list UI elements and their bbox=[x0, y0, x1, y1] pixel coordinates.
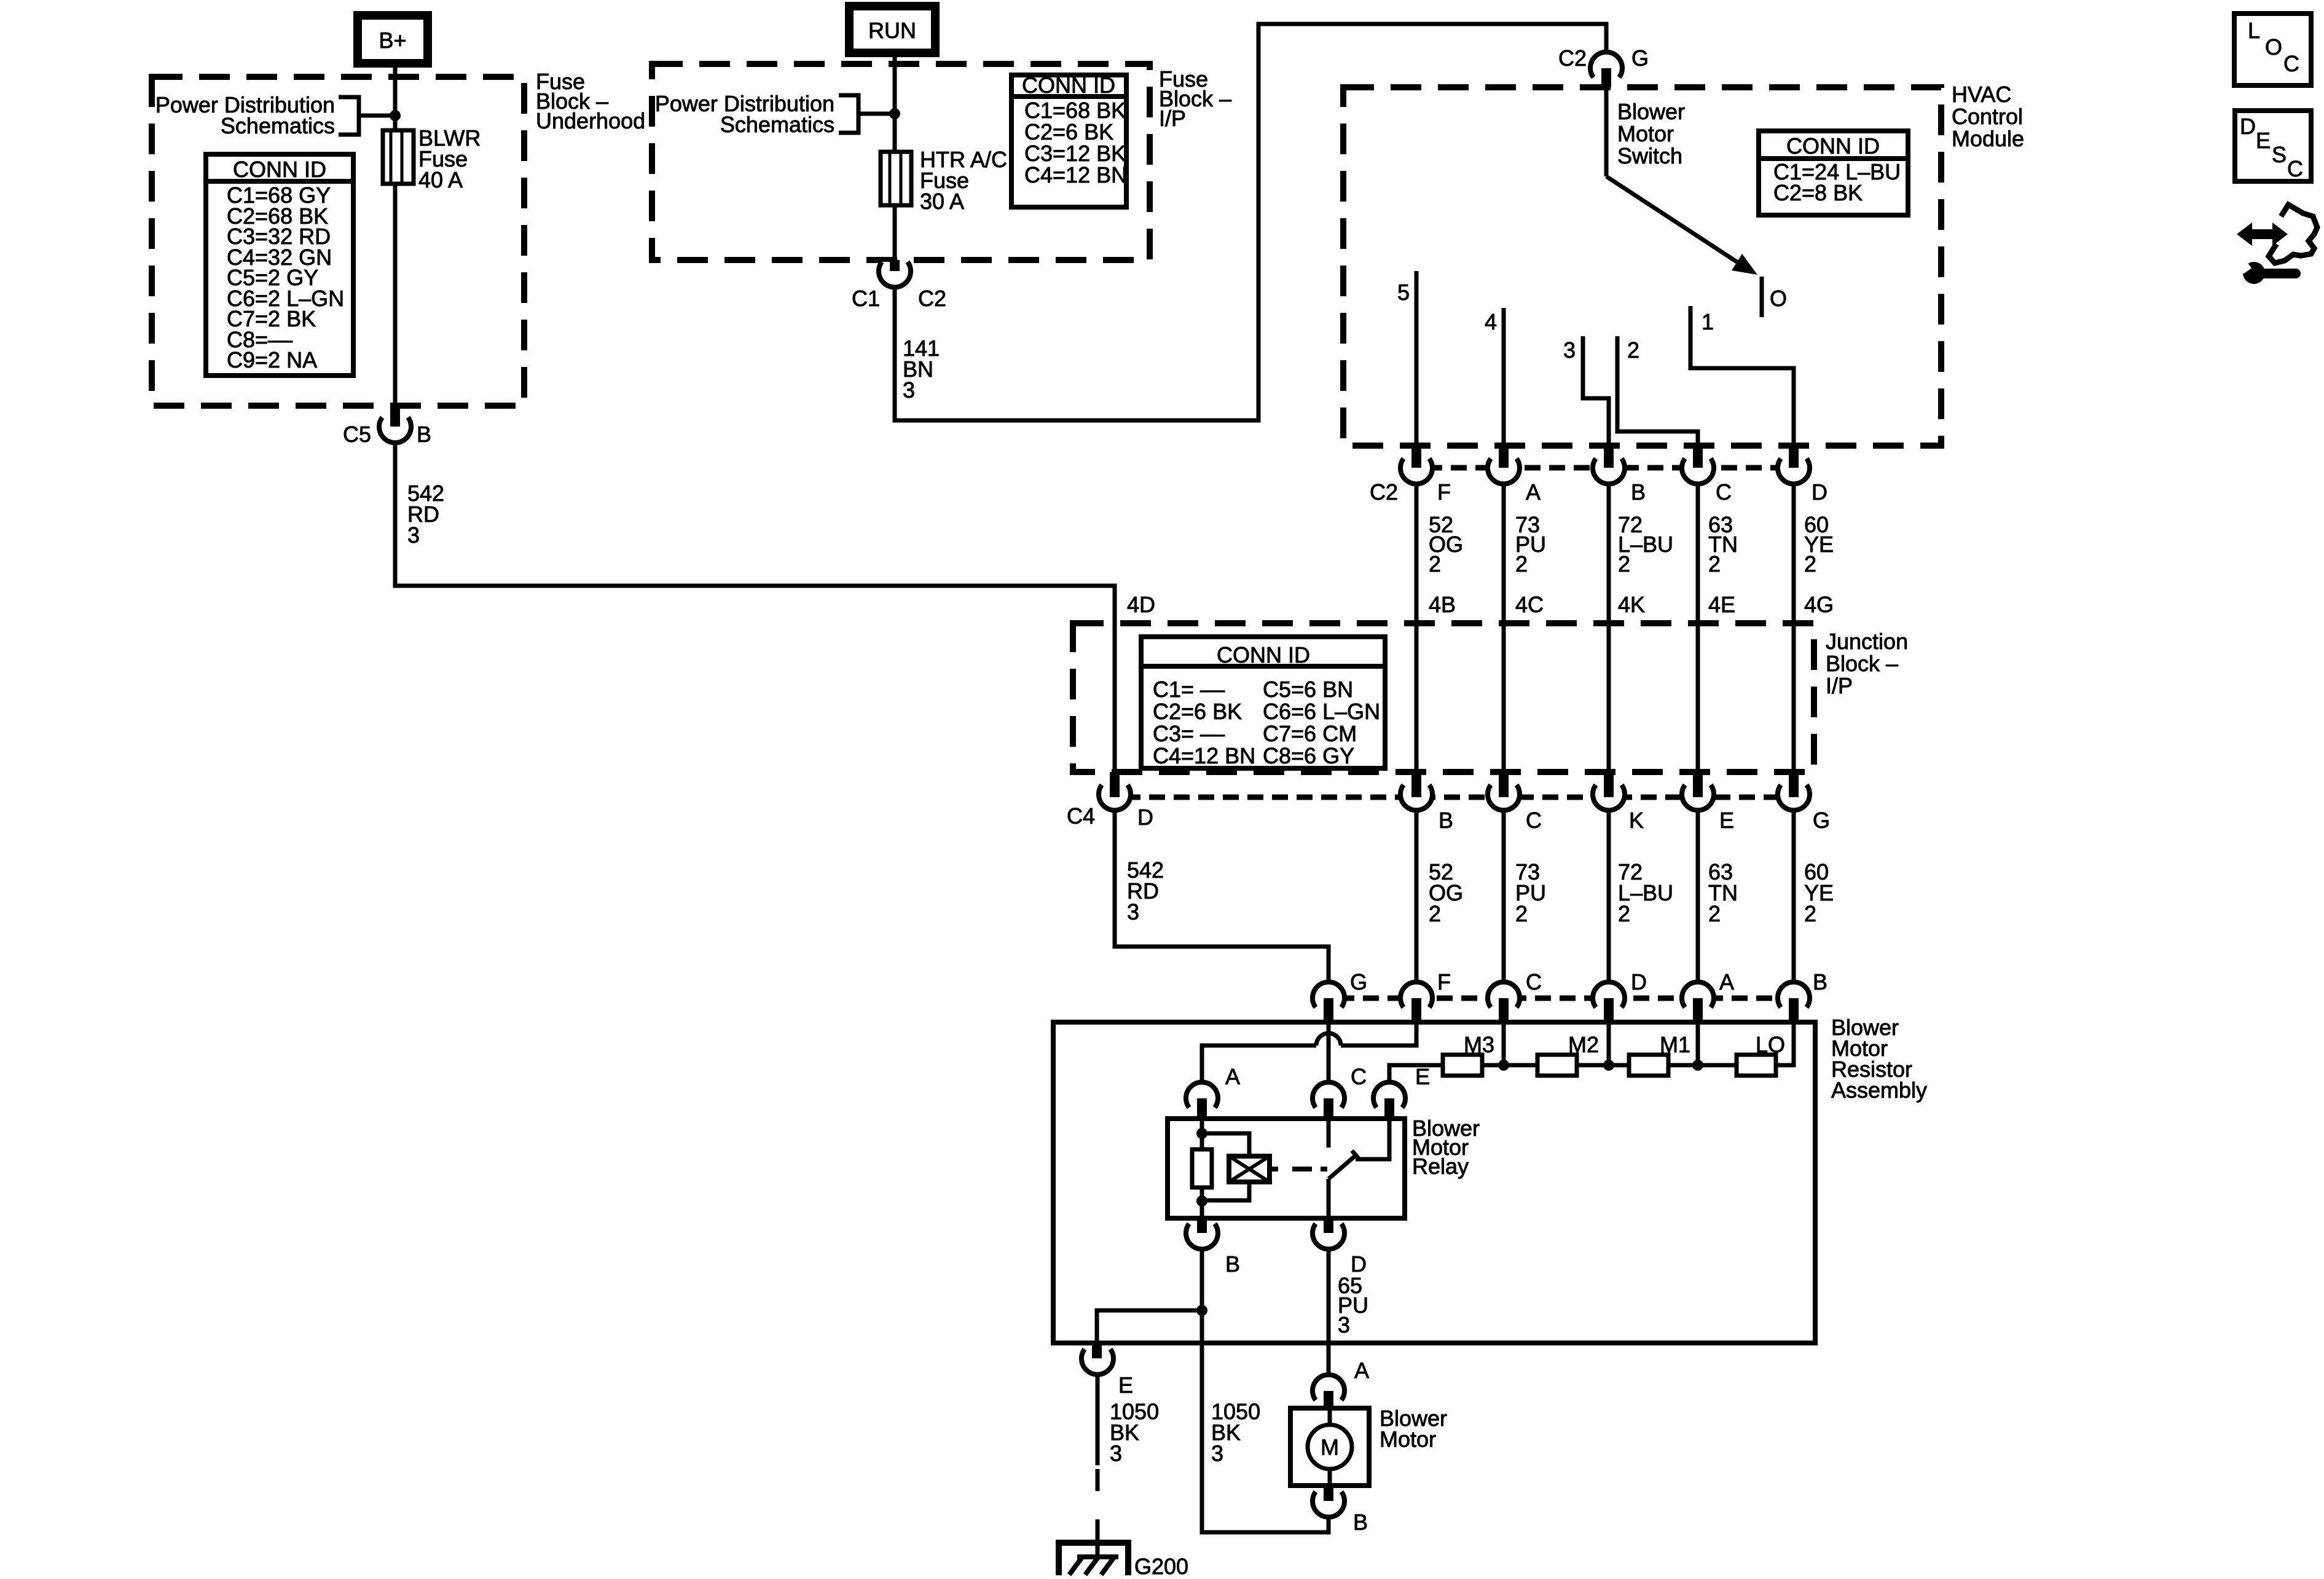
terminal 4 bbox=[1485, 308, 1504, 446]
svg-text:O: O bbox=[1770, 286, 1787, 311]
svg-text:Junction: Junction bbox=[1826, 629, 1908, 654]
svg-text:LO: LO bbox=[1756, 1032, 1785, 1057]
svg-text:E: E bbox=[1415, 1064, 1430, 1089]
connector row C4 D B C K E G bbox=[1067, 772, 1830, 833]
wire 52 through junction block bbox=[1415, 623, 1419, 772]
svg-text:C6=6 L–GN: C6=6 L–GN bbox=[1263, 699, 1380, 724]
wire 65 PU 3 relay D to motor bbox=[1327, 1248, 1331, 1376]
terminal 3 bbox=[1563, 336, 1609, 446]
switch blower motor switch arrow bbox=[1606, 176, 1757, 275]
svg-text:B: B bbox=[1631, 479, 1646, 505]
svg-text:Motor: Motor bbox=[1617, 121, 1674, 146]
svg-text:C5=6 BN: C5=6 BN bbox=[1263, 677, 1353, 702]
svg-text:F: F bbox=[1437, 969, 1451, 994]
fuse BLWR Fuse 40 A bbox=[383, 130, 414, 184]
svg-text:B: B bbox=[1225, 1251, 1240, 1277]
resistor LO bbox=[1737, 1032, 1785, 1076]
svg-text:HVAC: HVAC bbox=[1952, 82, 2011, 107]
svg-text:D: D bbox=[1137, 805, 1153, 830]
svg-text:2: 2 bbox=[1708, 901, 1721, 926]
terminal 5 bbox=[1397, 271, 1416, 446]
resistor M3 bbox=[1443, 1032, 1494, 1076]
svg-text:G: G bbox=[1631, 45, 1649, 71]
node dot D chain bbox=[1603, 1060, 1614, 1071]
node dot relay top bbox=[1196, 1128, 1207, 1139]
svg-text:Underhood: Underhood bbox=[536, 108, 645, 133]
label 52 OG 2 bbox=[1429, 512, 1463, 577]
label 542 RD 3 bbox=[407, 481, 444, 548]
wire 141 BN 3 bbox=[895, 24, 1606, 420]
svg-text:4D: 4D bbox=[1127, 592, 1155, 617]
wire branch to E bbox=[1097, 1310, 1202, 1343]
svg-text:C: C bbox=[2283, 51, 2299, 76]
svg-text:M1: M1 bbox=[1660, 1032, 1690, 1057]
resistor M2 bbox=[1537, 1032, 1599, 1076]
svg-text:4B: 4B bbox=[1429, 592, 1456, 617]
label 60 YE 2 bbox=[1804, 512, 1834, 577]
wire B column down bbox=[1415, 812, 1419, 983]
svg-text:C: C bbox=[1526, 808, 1542, 833]
wire fuse to box edge bbox=[393, 184, 398, 407]
wire C column to chain bbox=[1502, 1022, 1506, 1065]
terminal O bbox=[1762, 277, 1787, 317]
svg-text:L: L bbox=[2248, 18, 2260, 43]
svg-text:Schematics: Schematics bbox=[221, 113, 335, 138]
svg-text:2: 2 bbox=[1515, 551, 1528, 577]
terminal 2 bbox=[1617, 336, 1698, 446]
wire 63 through junction block bbox=[1696, 623, 1700, 772]
svg-text:3: 3 bbox=[903, 377, 915, 403]
svg-text:C4=12 BN: C4=12 BN bbox=[1024, 162, 1127, 187]
connector motor A bbox=[1313, 1358, 1369, 1408]
connector row C2 F A B C D bbox=[1370, 443, 1827, 505]
svg-text:D: D bbox=[1812, 479, 1827, 505]
relay switch fixed contact bbox=[1327, 1119, 1331, 1148]
motor M circle bbox=[1308, 1425, 1352, 1469]
svg-text:C9=2 NA: C9=2 NA bbox=[227, 347, 317, 372]
svg-text:I/P: I/P bbox=[1159, 106, 1186, 131]
wire hop to relay A down bbox=[1202, 1045, 1316, 1084]
wire 72 through junction block bbox=[1607, 623, 1611, 772]
svg-text:C7=6 CM: C7=6 CM bbox=[1263, 721, 1357, 746]
wire switch wiper bbox=[1604, 87, 1609, 176]
relay actuator dashed link bbox=[1270, 1167, 1327, 1171]
blower motor resistor assembly box bbox=[1053, 1022, 1815, 1343]
wire 1050 BK 3 to ground bbox=[1096, 1373, 1100, 1465]
svg-text:2: 2 bbox=[1804, 901, 1816, 926]
svg-text:C: C bbox=[2287, 156, 2303, 181]
svg-text:Block –: Block – bbox=[1826, 651, 1898, 676]
svg-text:2: 2 bbox=[1618, 901, 1630, 926]
svg-text:30 A: 30 A bbox=[920, 189, 964, 214]
wire G to relay C with crossover bbox=[1327, 1022, 1331, 1084]
terminal 1 bbox=[1690, 306, 1794, 446]
table CONN ID I/P bbox=[1011, 73, 1127, 207]
wire 60 through junction block bbox=[1792, 623, 1796, 772]
icon LOC bbox=[2234, 14, 2311, 85]
label Blower Motor Relay bbox=[1412, 1116, 1480, 1179]
label HVAC Control Module bbox=[1952, 82, 2024, 151]
svg-text:G: G bbox=[1350, 969, 1367, 994]
svg-text:E: E bbox=[1118, 1372, 1133, 1398]
wire C to junction block bbox=[1696, 482, 1700, 623]
svg-text:3: 3 bbox=[1211, 1441, 1223, 1466]
svg-text:B: B bbox=[417, 422, 431, 447]
svg-text:S: S bbox=[2272, 142, 2287, 167]
wire D to junction block bbox=[1792, 482, 1796, 623]
node dot B branch bbox=[1196, 1305, 1207, 1316]
label 72 L-BU 2 (lower) bbox=[1618, 859, 1673, 926]
wire C column down bbox=[1502, 812, 1506, 983]
connector C1 pin C2 bbox=[852, 260, 946, 311]
blower motor box bbox=[1290, 1408, 1369, 1486]
svg-text:2: 2 bbox=[1627, 337, 1639, 363]
wire G column down bbox=[1792, 812, 1796, 983]
wire 542 RD 3 to resistor block bbox=[1115, 812, 1329, 983]
wire hop over G bbox=[1316, 1033, 1341, 1045]
node junction dot bbox=[390, 110, 401, 121]
label BLWR Fuse 40 A bbox=[418, 125, 481, 192]
label 63 TN 2 bbox=[1708, 512, 1738, 577]
svg-text:C3= ––: C3= –– bbox=[1153, 721, 1225, 746]
wire A column to chain bbox=[1696, 1022, 1700, 1065]
wire 542 RD 3 bbox=[395, 441, 1115, 623]
wire E up to chain bbox=[1389, 1065, 1443, 1084]
wire B column to chain corner bbox=[1776, 1022, 1794, 1065]
svg-text:3: 3 bbox=[1127, 899, 1139, 924]
svg-text:B: B bbox=[1439, 808, 1453, 833]
fuse block underhood box bbox=[152, 77, 524, 406]
svg-text:M2: M2 bbox=[1568, 1032, 1599, 1057]
svg-text:M3: M3 bbox=[1464, 1032, 1494, 1057]
svg-text:CONN ID: CONN ID bbox=[1217, 642, 1310, 667]
label 73 PU 2 (lower) bbox=[1515, 859, 1546, 926]
svg-text:C5: C5 bbox=[343, 422, 371, 447]
icon DESC bbox=[2235, 111, 2311, 181]
svg-text:G: G bbox=[1813, 808, 1830, 833]
svg-text:4C: 4C bbox=[1515, 592, 1544, 617]
svg-text:Blower: Blower bbox=[1617, 99, 1685, 124]
svg-text:4E: 4E bbox=[1708, 592, 1735, 617]
svg-text:RUN: RUN bbox=[868, 18, 916, 43]
label 141 BN 3 bbox=[903, 336, 940, 403]
wire M3 to M2 bbox=[1482, 1063, 1537, 1068]
svg-text:C1= ––: C1= –– bbox=[1153, 677, 1225, 702]
label 52 OG 2 (lower) bbox=[1429, 859, 1463, 926]
table CONN ID junction block bbox=[1141, 637, 1385, 768]
svg-text:I/P: I/P bbox=[1826, 673, 1853, 698]
relay switch blade bbox=[1329, 1151, 1359, 1179]
ground G200 bbox=[1059, 1540, 1188, 1579]
resistor M1 bbox=[1629, 1032, 1690, 1076]
svg-text:E: E bbox=[2256, 128, 2271, 153]
svg-text:3: 3 bbox=[1338, 1312, 1350, 1337]
wire F to junction block bbox=[1415, 482, 1419, 623]
svg-text:E: E bbox=[1719, 808, 1734, 833]
svg-text:4G: 4G bbox=[1804, 592, 1834, 617]
table CONN ID HVAC bbox=[1759, 131, 1908, 215]
svg-text:C4=12 BN: C4=12 BN bbox=[1153, 743, 1255, 768]
connector C2 pin G bbox=[1558, 45, 1649, 87]
svg-text:C1: C1 bbox=[852, 286, 880, 311]
relay box blower motor relay bbox=[1168, 1119, 1405, 1218]
svg-text:3: 3 bbox=[1563, 337, 1576, 363]
label Junction Block - I/P bbox=[1826, 629, 1908, 698]
node dot C chain bbox=[1498, 1060, 1509, 1071]
svg-text:5: 5 bbox=[1397, 280, 1410, 305]
wire B+ to fuse bbox=[393, 63, 398, 130]
relay resistor bbox=[1192, 1149, 1212, 1187]
svg-text:CONN ID: CONN ID bbox=[233, 157, 326, 182]
wire E column down bbox=[1696, 812, 1700, 983]
svg-text:K: K bbox=[1629, 808, 1644, 833]
svg-text:2: 2 bbox=[1429, 551, 1441, 577]
svg-text:M: M bbox=[1321, 1435, 1339, 1460]
table CONN ID underhood bbox=[206, 154, 353, 376]
svg-text:40 A: 40 A bbox=[418, 167, 463, 192]
svg-text:CONN ID: CONN ID bbox=[1022, 73, 1115, 98]
svg-text:C2=6 BK: C2=6 BK bbox=[1153, 699, 1242, 724]
power symbol RUN bbox=[849, 6, 935, 53]
fuse block I/P box bbox=[652, 64, 1150, 260]
svg-text:Schematics: Schematics bbox=[720, 112, 834, 137]
wire fuse to box edge (I/P) bbox=[893, 205, 897, 261]
label 73 PU 2 bbox=[1515, 512, 1546, 577]
svg-text:2: 2 bbox=[1708, 551, 1721, 577]
connector relay A bbox=[1186, 1064, 1240, 1119]
svg-text:B: B bbox=[1813, 969, 1827, 994]
bracket to node bbox=[339, 97, 393, 135]
relay switch common to D bbox=[1327, 1179, 1331, 1218]
wire 73 through junction block bbox=[1502, 623, 1506, 772]
svg-text:4K: 4K bbox=[1618, 592, 1645, 617]
svg-text:C: C bbox=[1351, 1064, 1367, 1089]
svg-text:C: C bbox=[1526, 969, 1542, 994]
label Blower Motor Switch bbox=[1617, 99, 1685, 168]
connector E (resistor assembly) bbox=[1082, 1343, 1133, 1398]
wire B to junction block bbox=[1607, 482, 1611, 623]
svg-text:Motor: Motor bbox=[1380, 1427, 1436, 1452]
relay switch to E bbox=[1356, 1119, 1389, 1159]
connector relay E bbox=[1373, 1064, 1430, 1119]
connector motor B bbox=[1313, 1486, 1368, 1535]
svg-text:2: 2 bbox=[1804, 551, 1816, 577]
wire M2 to M1 bbox=[1577, 1063, 1629, 1068]
svg-text:A: A bbox=[1354, 1358, 1369, 1383]
icon locate arrow and wrench bbox=[2237, 205, 2317, 284]
HVAC control module box bbox=[1343, 87, 1941, 446]
svg-text:Relay: Relay bbox=[1412, 1154, 1469, 1179]
wire M1 to LO bbox=[1668, 1063, 1737, 1068]
svg-text:Assembly: Assembly bbox=[1831, 1077, 1927, 1103]
svg-text:1: 1 bbox=[1702, 309, 1714, 334]
svg-text:CONN ID: CONN ID bbox=[1786, 133, 1880, 159]
svg-text:Control: Control bbox=[1952, 104, 2023, 129]
svg-text:2: 2 bbox=[1618, 551, 1630, 577]
label 65 PU 3 bbox=[1338, 1273, 1368, 1337]
wire RUN to fuse bbox=[893, 53, 897, 152]
connector relay C bbox=[1313, 1064, 1367, 1119]
wire relay B ground branch bbox=[1202, 1248, 1329, 1532]
node junction dot (I/P) bbox=[889, 108, 900, 119]
svg-text:4: 4 bbox=[1485, 309, 1497, 334]
relay coil lower wires bbox=[1202, 1182, 1249, 1218]
label 1050 BK 3 (right) bbox=[1211, 1399, 1260, 1466]
wire A to junction block bbox=[1502, 482, 1506, 623]
svg-text:F: F bbox=[1437, 479, 1451, 505]
power symbol B+ bbox=[358, 15, 428, 63]
motor internal stubs bbox=[1328, 1408, 1332, 1486]
connector relay B bbox=[1186, 1218, 1240, 1277]
svg-text:C4: C4 bbox=[1067, 803, 1095, 829]
wire F jog to relay A bbox=[1341, 1022, 1416, 1045]
label 542 RD 3 (lower) bbox=[1127, 857, 1164, 924]
connector row G F C D A B (resistor assembly) bbox=[1313, 969, 1827, 1022]
svg-text:C2: C2 bbox=[918, 286, 946, 311]
svg-text:C8=6 GY: C8=6 GY bbox=[1263, 743, 1354, 768]
label HTR A/C Fuse 30 A bbox=[920, 147, 1007, 214]
svg-text:2: 2 bbox=[1429, 901, 1441, 926]
svg-text:G200: G200 bbox=[1134, 1554, 1188, 1579]
bracket to node (I/P) bbox=[839, 95, 890, 133]
fuse HTR A/C Fuse 30 A bbox=[881, 152, 911, 205]
svg-text:C2=8 BK: C2=8 BK bbox=[1773, 180, 1863, 205]
node dot relay bottom bbox=[1196, 1195, 1207, 1207]
connector relay D bbox=[1313, 1218, 1367, 1277]
wire D column to chain bbox=[1607, 1022, 1611, 1065]
svg-text:A: A bbox=[1719, 969, 1734, 994]
label Blower Motor Resistor Assembly bbox=[1831, 1015, 1927, 1103]
svg-text:A: A bbox=[1526, 479, 1541, 505]
label Fuse Block - Underhood bbox=[536, 69, 645, 133]
svg-text:3: 3 bbox=[407, 522, 420, 548]
wire K column down bbox=[1607, 812, 1611, 983]
svg-text:C: C bbox=[1716, 479, 1732, 505]
svg-text:B+: B+ bbox=[379, 28, 406, 53]
label 1050 BK 3 (left) bbox=[1110, 1399, 1159, 1466]
svg-text:O: O bbox=[2265, 34, 2282, 60]
node dot A chain bbox=[1692, 1060, 1703, 1071]
wire 542 through junction block bbox=[1113, 623, 1117, 772]
svg-text:A: A bbox=[1225, 1064, 1240, 1089]
svg-text:3: 3 bbox=[1110, 1441, 1122, 1466]
label 60 YE 2 (lower) bbox=[1804, 859, 1834, 926]
svg-text:Module: Module bbox=[1952, 126, 2024, 151]
label Blower Motor bbox=[1380, 1406, 1447, 1452]
svg-text:C2: C2 bbox=[1370, 479, 1398, 505]
connector C5 pin B bbox=[343, 406, 431, 447]
label Power Distribution Schematics (I/P) bbox=[655, 91, 834, 137]
label 63 TN 2 (lower) bbox=[1708, 859, 1738, 926]
relay coil box bbox=[1229, 1156, 1270, 1182]
label Power Distribution Schematics bbox=[155, 92, 335, 138]
svg-text:D: D bbox=[2240, 114, 2256, 139]
svg-text:Switch: Switch bbox=[1617, 143, 1682, 168]
svg-text:B: B bbox=[1353, 1510, 1368, 1535]
relay coil feed wires bbox=[1202, 1119, 1249, 1156]
svg-text:D: D bbox=[1631, 969, 1647, 994]
svg-text:2: 2 bbox=[1515, 901, 1528, 926]
svg-text:C2: C2 bbox=[1558, 45, 1587, 71]
junction block I/P box bbox=[1073, 623, 1814, 772]
label 72 L-BU 2 bbox=[1618, 512, 1673, 577]
label Fuse Block - I/P bbox=[1159, 66, 1231, 131]
